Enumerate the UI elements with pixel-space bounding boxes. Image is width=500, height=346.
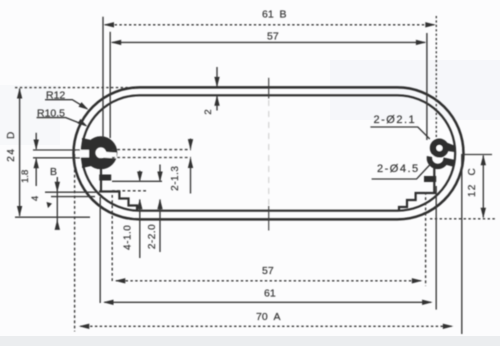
bottom 70A arrows <box>79 324 90 329</box>
4-1.0 arrows <box>137 172 142 183</box>
dim 4-1.0 vertical <box>139 171 141 181</box>
1.8 dim arrows line <box>35 133 37 149</box>
svg-text:57: 57 <box>262 265 274 277</box>
bottom 61 arrows <box>103 300 114 305</box>
svg-text:2-2.0: 2-2.0 <box>147 224 158 249</box>
61B arrows <box>104 22 115 27</box>
svg-text:4-1.0: 4-1.0 <box>123 225 134 250</box>
svg-text:2-1.3: 2-1.3 <box>170 166 181 191</box>
dim 12 C <box>462 154 493 156</box>
dim 24 D line <box>19 89 21 217</box>
inner shell wall <box>82 95 455 210</box>
svg-text:61: 61 <box>264 287 276 299</box>
svg-text:4: 4 <box>30 196 41 201</box>
right screw boss small (phi 2.1) <box>433 142 456 155</box>
2-phi4.5 underline + leader <box>372 164 431 180</box>
small leader mark for 4 <box>47 202 53 208</box>
bottom 57 ext lines <box>111 195 113 281</box>
outer shell stadium <box>74 87 464 219</box>
4 arrow up at bottom <box>55 219 60 230</box>
2-1.3 arrows <box>188 139 193 150</box>
2-1.3 dim line <box>190 139 192 149</box>
dim 61 B top line <box>105 24 435 26</box>
1.8 slot ext lines <box>33 149 80 151</box>
svg-text:2: 2 <box>203 109 214 114</box>
R12 leader arrowhead <box>79 102 89 110</box>
right screw boss (phi 4.5) crescent <box>429 151 455 167</box>
bottom 70 A ext lines <box>74 154 76 332</box>
57 top arrows <box>111 40 122 45</box>
B / 4 dim vertical line <box>56 177 58 228</box>
2-2.0 arrows <box>157 172 162 183</box>
svg-text:2-Ø4.5: 2-Ø4.5 <box>377 163 420 175</box>
dim 57 top ext lines <box>109 32 111 138</box>
left lower step / PCB ledges <box>99 167 137 211</box>
dim 57 top line <box>112 41 425 43</box>
svg-text:61 B: 61 B <box>262 9 287 21</box>
svg-text:R10.5: R10.5 <box>37 107 65 119</box>
svg-text:2-Ø2.1: 2-Ø2.1 <box>374 114 417 126</box>
svg-text:24 D: 24 D <box>6 130 17 161</box>
dim 2 wall thickness <box>216 67 218 87</box>
ledge ext lines left outside <box>45 191 98 193</box>
2-phi2.1 underline + leader <box>370 127 429 139</box>
R10.5 leader arrowhead <box>78 119 88 127</box>
svg-text:57: 57 <box>267 30 279 42</box>
24 D ext lines <box>15 87 136 89</box>
bottom 61 dim line <box>105 301 432 303</box>
dim 61 B top: extension lines <box>102 17 104 138</box>
svg-text:R12: R12 <box>46 89 65 101</box>
12C arrows <box>481 155 486 166</box>
bottom 70 A dim line <box>81 325 452 327</box>
svg-text:12 C: 12 C <box>467 167 478 197</box>
R10.5 underline + leader <box>37 118 86 126</box>
bottom 57 arrows <box>115 278 126 283</box>
R12 underline + leader <box>45 100 87 109</box>
1.8 arrows <box>34 140 39 151</box>
left screw boss ring <box>77 138 117 168</box>
2 arrows <box>214 77 219 88</box>
centerline ticks <box>268 78 270 231</box>
boss screw hole slit right <box>103 152 117 159</box>
svg-text:B: B <box>50 166 57 178</box>
bottom 57 dim line <box>116 280 421 282</box>
B arrow down <box>55 182 60 193</box>
24D arrows <box>17 88 22 99</box>
dim 2-2.0 vertical <box>159 165 161 181</box>
boss slit to wall (1.8 slot) <box>77 150 90 158</box>
bottom 61 ext lines <box>99 197 101 303</box>
right lower step / PCB ledges <box>399 168 437 211</box>
svg-text:1.8: 1.8 <box>20 170 31 183</box>
boss mid slot dashed ext to 2-1.3 <box>112 149 191 151</box>
lip/ledge ext lines interior <box>112 180 162 182</box>
svg-text:70 A: 70 A <box>256 311 281 323</box>
